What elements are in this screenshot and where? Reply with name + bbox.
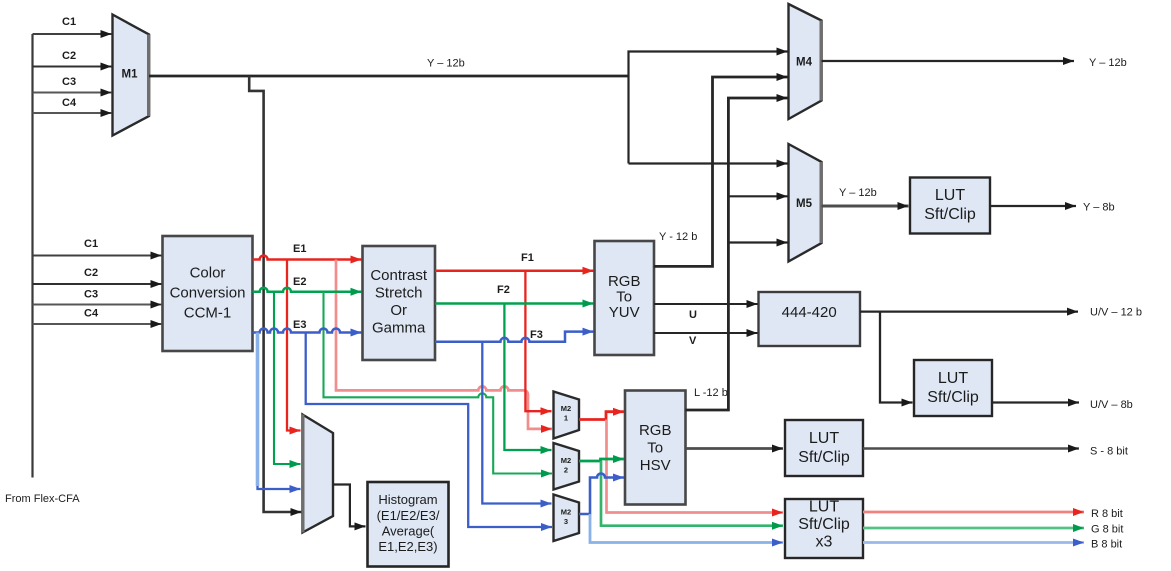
svg-text:S - 8 bit: S - 8 bit <box>1090 446 1128 458</box>
svg-text:G 8 bit: G 8 bit <box>1091 524 1123 536</box>
svg-text:From Flex-CFA: From Flex-CFA <box>5 493 80 505</box>
wire E1 red CCM to Contrast <box>253 256 362 260</box>
mux M2 2 <box>554 443 580 490</box>
svg-text:Sft/Clip: Sft/Clip <box>798 449 850 466</box>
block Contrast Stretch Or Gamma <box>363 246 436 360</box>
wire to M4 in1 <box>629 52 788 164</box>
wire M2-1 out to HSV R <box>579 412 624 420</box>
svg-text:RGB: RGB <box>639 422 672 439</box>
svg-text:C3: C3 <box>62 76 76 88</box>
wire M5 output Y-12b to LUT <box>822 205 909 208</box>
wire C1 to M1 <box>33 33 112 35</box>
svg-text:Sft/Clip: Sft/Clip <box>798 516 850 533</box>
wire B bypass light blue to LUT x3 <box>590 514 783 543</box>
wire branch to M5 in3 <box>728 241 787 243</box>
mux M2 3 <box>554 495 580 542</box>
mux M2 1 <box>554 392 580 439</box>
wire R bypass salmon to LUT x3 <box>607 420 784 513</box>
block LUT Sft/Clip (U/V) <box>914 360 992 416</box>
wire L-12b from HSV up to M4 in3 <box>686 98 788 410</box>
svg-text:Y - 12 b: Y - 12 b <box>659 231 697 243</box>
wire R 8bit out <box>863 511 1084 514</box>
svg-text:2: 2 <box>564 466 568 475</box>
wire LUT out S-8bit <box>863 447 1079 449</box>
svg-text:C4: C4 <box>62 97 77 109</box>
svg-text:V: V <box>689 335 697 347</box>
svg-text:Or: Or <box>390 302 407 319</box>
svg-text:Y – 12b: Y – 12b <box>1089 57 1127 69</box>
svg-text:E3: E3 <box>293 319 306 331</box>
wire G 8bit out <box>863 527 1084 530</box>
svg-text:Sft/Clip: Sft/Clip <box>927 389 979 406</box>
wire F2 green Contrast to YUV <box>435 302 594 305</box>
svg-text:M2: M2 <box>561 456 571 465</box>
WIRES-COLOR <box>253 256 1085 543</box>
wire U to 444-420 <box>654 303 758 305</box>
wire to M5 in1 <box>629 162 788 164</box>
svg-text:x3: x3 <box>816 534 833 551</box>
svg-text:L -12 b: L -12 b <box>694 387 728 399</box>
wire F2 branch to M2-2 in1 <box>504 304 551 451</box>
mux M5 <box>789 144 822 262</box>
wire branch to M5 in2 <box>728 195 787 197</box>
wire M1 output bus <box>149 75 629 78</box>
wire C2 to M1 <box>33 66 112 68</box>
svg-text:Conversion: Conversion <box>170 285 246 302</box>
svg-text:LUT: LUT <box>809 499 839 516</box>
wire M2-3 out to HSV B <box>579 474 624 515</box>
mux M4 <box>789 4 822 119</box>
block LUT Sft/Clip x3 <box>785 499 863 559</box>
svg-text:Histogram: Histogram <box>378 492 437 507</box>
mux histogram-select (unlabeled) <box>303 415 334 533</box>
svg-text:LUT: LUT <box>809 430 839 447</box>
block LUT Sft/Clip (Y) <box>910 178 990 234</box>
svg-text:C3: C3 <box>84 289 98 301</box>
svg-text:C1: C1 <box>62 16 76 28</box>
wire M4 output Y-12b <box>822 60 1075 62</box>
wire E3 blue CCM to Contrast <box>253 329 362 333</box>
svg-text:M1: M1 <box>122 69 139 81</box>
wire E1 salmon branch to M2-1 in2 <box>336 260 552 429</box>
wire E2 branch down to histogram mux in2 <box>274 292 301 464</box>
svg-text:B 8 bit: B 8 bit <box>1091 539 1122 551</box>
block RGB To YUV <box>595 241 655 355</box>
wire Y-12b from YUV to M4 in2 <box>654 77 788 266</box>
wire F1 red Contrast to YUV <box>435 269 594 272</box>
svg-text:Stretch: Stretch <box>375 285 423 302</box>
svg-text:E1,E2,E3): E1,E2,E3) <box>378 539 437 554</box>
WIRES-BLACK <box>33 34 1080 526</box>
svg-text:R 8 bit: R 8 bit <box>1091 508 1123 520</box>
wire F3 branch to M2-3 in1 <box>482 342 551 504</box>
svg-text:M2: M2 <box>561 508 571 517</box>
wire M2-2 out to HSV G <box>579 459 624 461</box>
wire G bypass to LUT x3 <box>601 461 783 526</box>
wire E2 branch to M2-2 in2 <box>324 292 553 474</box>
svg-text:C2: C2 <box>84 267 98 279</box>
block Histogram <box>368 482 449 567</box>
wire B 8bit out <box>863 541 1084 544</box>
svg-text:C2: C2 <box>62 50 76 62</box>
wire LUT out U/V-8b <box>992 401 1079 403</box>
svg-text:C4: C4 <box>84 308 99 320</box>
svg-text:1: 1 <box>564 414 568 423</box>
svg-text:3: 3 <box>564 517 568 526</box>
svg-text:M5: M5 <box>796 198 813 210</box>
svg-text:LUT: LUT <box>935 187 965 204</box>
svg-text:F2: F2 <box>497 284 510 296</box>
svg-text:E1: E1 <box>293 243 306 255</box>
wire E1 branch down to histogram mux in1 <box>287 260 301 431</box>
mux M1 <box>113 15 150 136</box>
svg-text:YUV: YUV <box>609 304 640 321</box>
wire C3 to CCM <box>33 304 162 306</box>
block LUT Sft/Clip (S) <box>785 420 863 476</box>
svg-text:To: To <box>616 289 632 306</box>
svg-text:RGB: RGB <box>608 273 641 290</box>
svg-text:E2: E2 <box>293 276 306 288</box>
svg-text:Y – 12b: Y – 12b <box>427 58 465 70</box>
svg-text:LUT: LUT <box>938 370 968 387</box>
wire F3 blue Contrast to YUV <box>435 332 594 342</box>
svg-text:U/V – 8b: U/V – 8b <box>1090 399 1133 411</box>
wire 444-420 out U/V-12b <box>860 310 1078 312</box>
wire E3 light-blue branch down to histogram mux in3 <box>256 333 260 487</box>
wire E2 green CCM to Contrast <box>253 288 362 292</box>
block Color Conversion CCM-1 <box>163 236 253 351</box>
wire LUT out Y-8b <box>990 205 1076 207</box>
svg-text:HSV: HSV <box>640 457 671 474</box>
svg-text:Sft/Clip: Sft/Clip <box>924 206 976 223</box>
block RGB To HSV <box>625 391 686 505</box>
wire V to 444-420 <box>654 332 758 334</box>
svg-text:M2: M2 <box>561 404 571 413</box>
wire F1 branch to M2-1 in1 <box>525 271 551 412</box>
svg-text:Gamma: Gamma <box>372 320 426 337</box>
wire C1 to CCM <box>33 255 162 257</box>
wire S from HSV to LUT <box>686 447 784 450</box>
wire M1 out branch down to histogram mux <box>249 76 301 512</box>
svg-text:Average(: Average( <box>382 524 435 539</box>
svg-text:Y – 12b: Y – 12b <box>839 187 877 199</box>
wire C3 to M1 <box>33 92 112 94</box>
wire C4 to M1 <box>33 112 112 114</box>
svg-text:M4: M4 <box>796 57 813 69</box>
svg-text:Y – 8b: Y – 8b <box>1083 202 1115 214</box>
wire histogram mux out <box>333 485 366 527</box>
svg-text:F1: F1 <box>521 252 534 264</box>
svg-text:444-420: 444-420 <box>782 304 837 321</box>
svg-text:To: To <box>647 440 663 457</box>
svg-text:F3: F3 <box>530 329 543 341</box>
wire branch to LUT U/V <box>880 312 913 403</box>
svg-text:Color: Color <box>190 265 226 282</box>
wire C2 to CCM <box>33 283 162 285</box>
svg-text:(E1/E2/E3/: (E1/E2/E3/ <box>377 508 440 523</box>
block 444-420 <box>759 292 861 346</box>
wire E3 branch to M2-3 in2 <box>306 333 552 528</box>
svg-text:CCM-1: CCM-1 <box>184 305 232 322</box>
svg-text:Contrast: Contrast <box>370 267 428 284</box>
svg-text:U/V – 12 b: U/V – 12 b <box>1090 307 1142 319</box>
svg-text:C1: C1 <box>84 238 98 250</box>
svg-text:U: U <box>689 309 697 321</box>
wire From Flex-CFA trunk <box>31 34 33 478</box>
wire C4 to CCM <box>33 323 162 325</box>
